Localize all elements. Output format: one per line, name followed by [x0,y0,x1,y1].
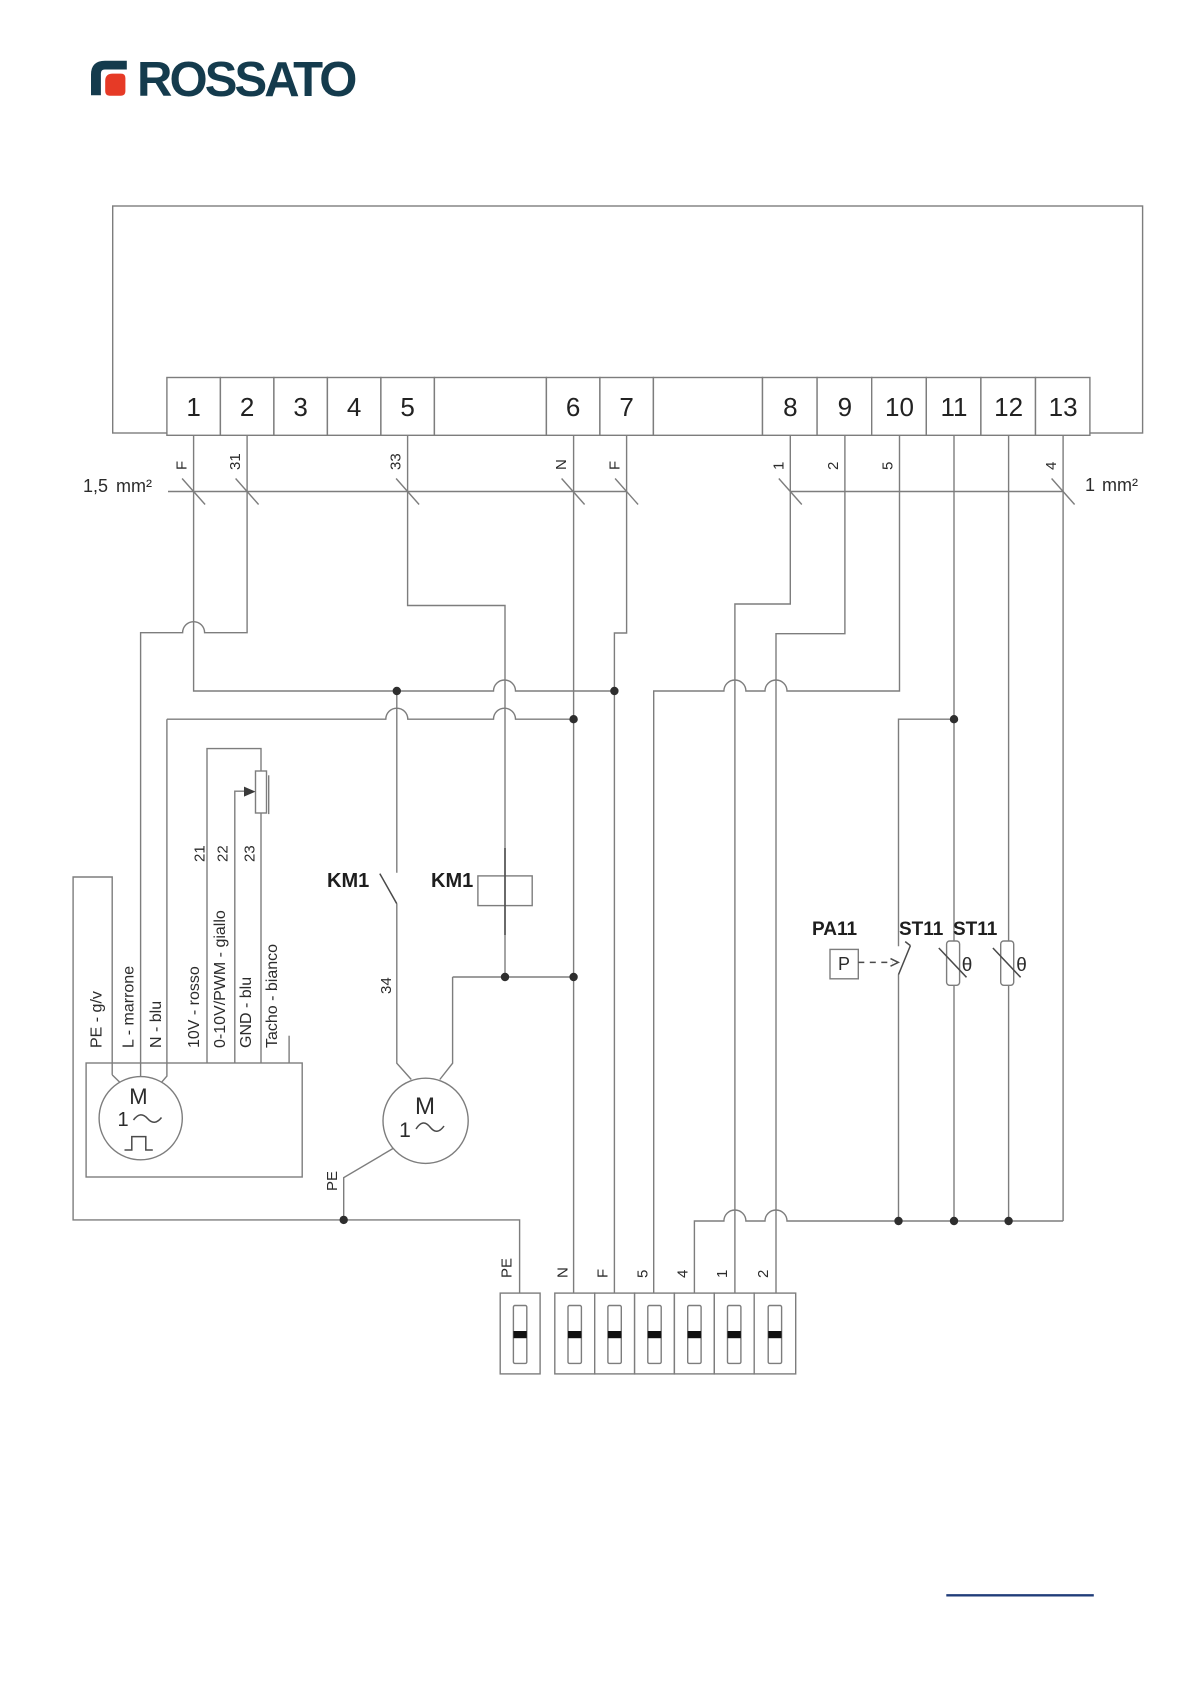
svg-text:ROSSATO: ROSSATO [137,53,356,107]
terminal 1 [167,378,221,436]
svg-text:6: 6 [566,392,580,422]
wire from terminal 11 through ST11 to node 4 [953,435,955,1221]
blue divider line [946,1594,1094,1596]
svg-text:7: 7 [619,392,633,422]
cable slash mark on wire 1 (terminal 8) [779,479,802,505]
svg-text:31: 31 [227,453,244,470]
svg-text:22: 22 [215,845,232,862]
svg-text:N: N [553,459,570,470]
terminal 6 [546,378,600,436]
wire: PA11 contact to node 4 line [898,975,900,1221]
svg-text:12: 12 [994,392,1023,422]
wire: motor M2 PE to PE rail [344,1148,394,1220]
cable slash mark on wire 33 (terminal 5) [396,479,419,505]
terminal 13 [1036,378,1090,436]
svg-text:13: 13 [1049,392,1078,422]
junction wire 11 / PA11 branch [950,715,958,723]
svg-text:M: M [415,1093,435,1120]
svg-text:1: 1 [186,392,200,422]
pressure switch PA11 device box [830,949,858,978]
wire Tacho stub [288,1036,290,1063]
terminal strip spacer box B [653,378,762,436]
terminal 5 [381,378,435,436]
terminal 4 [327,378,381,436]
svg-text:PE: PE [324,1171,341,1191]
svg-text:KM1: KM1 [327,870,369,892]
svg-text:33: 33 [388,453,405,470]
svg-text:5: 5 [880,462,897,470]
wire F: terminal 1 down and F bus to junction with wire from terminal 7 [194,435,615,691]
wire 2: terminal 9 down with jog to connector 2 [776,435,845,1293]
svg-text:PA11: PA11 [812,919,858,940]
svg-text:PE - g/v: PE - g/v [89,991,106,1048]
field connector N [555,1293,595,1374]
motor M2 (1~) [383,1078,468,1163]
svg-text:21: 21 [192,845,209,862]
motor M1 (1~ with PWM) [99,1077,182,1160]
svg-text:5: 5 [635,1270,652,1278]
field connector 2 [754,1293,796,1374]
value label 1 mm2 [1085,475,1138,495]
svg-text:N - blu: N - blu [148,1001,165,1048]
svg-text:9: 9 [838,392,852,422]
logo Rossato icon [91,61,127,96]
wire 4: terminal 13 down to node 4 [1062,435,1064,1221]
junction node 4 / PA11 [894,1217,902,1225]
svg-text:4: 4 [674,1270,691,1278]
wire: PE loop into motor M1 [112,1075,120,1083]
contactor coil KM1 [478,876,532,906]
terminal strip spacer box A [434,378,546,436]
cable gauge line 1 mm2 [790,491,1063,493]
field connector 4 [674,1293,714,1374]
node 4 return line: connector 4 up and right, hops over wires 1 and 2, to wire 4 [694,1210,1063,1293]
wire 5: terminal 10 down, left with hops over wires 1 and 2, down to connector 5 [654,435,900,1293]
terminal 8 [763,378,818,436]
field connector 1 [714,1293,754,1374]
svg-text:F: F [595,1269,612,1278]
wire N: terminal 6 down to connector N [573,435,575,1293]
cable slash mark on wire F (terminal 7) [615,479,638,505]
svg-text:5: 5 [400,392,414,422]
temperature sensor ST11 #2 [993,941,1027,985]
value label 1,5 mm2 [83,476,152,496]
temperature sensor ST11 #1 [939,941,973,985]
svg-text:ST11: ST11 [899,919,944,940]
junction N link / wire N [569,973,577,981]
cable slash mark on wire 31 (terminal 2) [236,479,259,505]
wire F: terminal 7 down with jog, through F bus junction, to connector F [614,435,626,1293]
wire 33: terminal 5 down with jog to KM1 coil A1 [408,435,505,977]
field connector PE [500,1293,540,1374]
svg-text:1: 1 [399,1119,411,1142]
svg-text:F: F [607,461,624,470]
svg-text:3: 3 [293,392,307,422]
svg-text:23: 23 [242,845,259,862]
junction node 4 / ST11 #2 [1004,1217,1012,1225]
junction N bus / wire N [569,715,577,723]
svg-text:PE: PE [499,1258,516,1278]
svg-text:GND - blu: GND - blu [238,977,255,1048]
potentiometer wiper arrow [244,787,256,797]
cable slash mark on wire N (terminal 6) [562,479,585,505]
potentiometer R1 body [256,771,269,814]
svg-text:2: 2 [240,392,254,422]
svg-text:F: F [174,461,191,470]
svg-text:1: 1 [770,462,787,470]
svg-text:1: 1 [714,1270,731,1278]
terminal 7 [600,378,654,436]
svg-text:θ: θ [1016,955,1027,976]
wire 34: KM1 contact to motor M2 [397,904,412,1080]
svg-text:34: 34 [378,977,395,994]
wire: F bus junction down to KM1 contact [396,691,398,873]
svg-text:L - marrone: L - marrone [121,966,138,1048]
svg-text:mm²: mm² [1102,475,1138,495]
terminal 9 [817,378,872,436]
wire 1: terminal 8 down with jog to connector 1 [735,435,790,1293]
svg-text:1: 1 [1085,475,1095,495]
terminal 2 [220,378,274,436]
PE conductor loop from motor M1 to PE rail [73,877,519,1293]
field connector 5 [635,1293,675,1374]
wire: branch from wire 11 to PA11 contact [899,719,955,946]
motor M1 terminal box outline [86,1063,302,1177]
pressure switch PA11 contact blade [899,942,911,975]
svg-text:M: M [129,1084,147,1109]
wire 31: terminal 2 down, hop over wire F, to motor M1 terminal L [141,435,248,1076]
N bus: motor M1 terminal N to wire N, hops over KM1 branches [167,708,574,719]
svg-text:11: 11 [941,392,968,422]
junction KM1 coil A2 / N link [501,973,509,981]
svg-text:2: 2 [755,1270,772,1278]
svg-text:Tacho - bianco: Tacho - bianco [264,944,281,1048]
svg-text:1,5: 1,5 [83,476,108,496]
wire 21: 10V to potentiometer top [207,749,261,1063]
wire 23: potentiometer bottom to GND [260,813,262,1063]
PA11 actuation dashed link with arrow [858,959,898,967]
svg-text:10: 10 [885,392,914,422]
svg-text:8: 8 [783,392,797,422]
wire: N link down to motor M2 right terminal [440,977,453,1080]
wire: N bus down to motor M1 terminal N [161,719,167,1082]
svg-text:4: 4 [347,392,361,422]
wire 22: wiper 0-10V/PWM [235,791,244,1063]
svg-text:mm²: mm² [116,476,152,496]
junction F bus / wire from terminal 7 [610,687,618,695]
svg-text:1: 1 [117,1109,128,1131]
svg-text:θ: θ [962,955,973,976]
svg-text:N: N [555,1267,572,1278]
svg-text:4: 4 [1043,462,1060,470]
svg-text:KM1: KM1 [431,870,473,892]
junction F bus / KM1 contact [393,687,401,695]
svg-text:2: 2 [825,462,842,470]
terminal 10 [872,378,927,436]
terminal 3 [274,378,328,436]
junction PE rail / motor M2 PE [340,1216,348,1224]
wire from terminal 12 through ST11 to node 4 [1008,435,1010,1221]
contactor KM1 NO contact blade [380,874,397,904]
terminal 12 [981,378,1036,436]
junction node 4 / ST11 #1 [950,1217,958,1225]
controller unit outline [113,206,1143,433]
cable slash mark on wire 4 (terminal 13) [1052,479,1075,505]
svg-text:10V - rosso: 10V - rosso [186,966,203,1048]
N link line: motor M2 to KM1 coil A2 to wire N [453,976,574,978]
wire: KM1 coil lead A1-A2 (dark) [504,848,506,935]
cable slash mark on wire F (terminal 1) [182,479,205,505]
svg-text:ST11: ST11 [953,919,998,940]
cable gauge line 1,5 mm2 [168,491,627,493]
field connector F [595,1293,635,1374]
svg-text:P: P [838,954,850,974]
terminal 11 [926,378,981,436]
svg-text:0-10V/PWM - giallo: 0-10V/PWM - giallo [212,910,229,1048]
